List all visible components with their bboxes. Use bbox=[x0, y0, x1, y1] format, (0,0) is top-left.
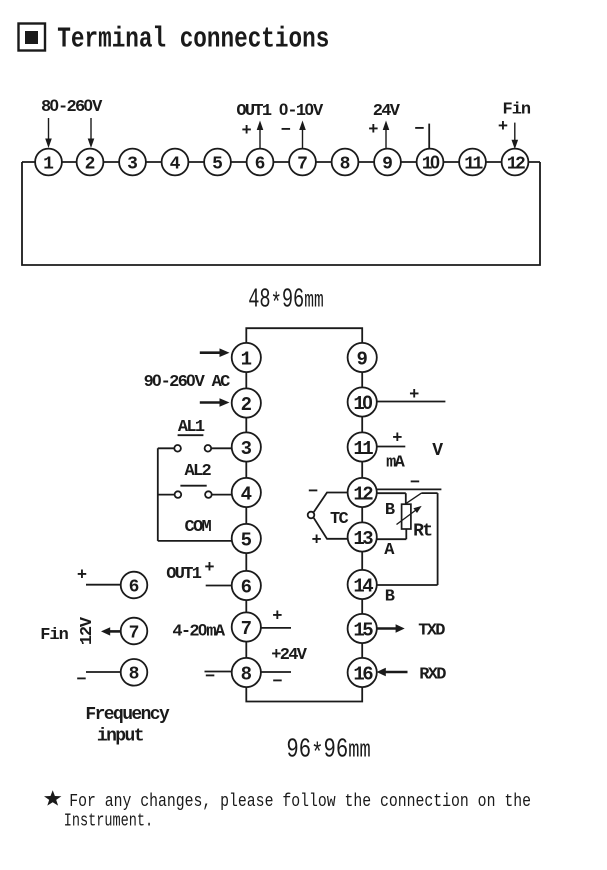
svg-text:+: + bbox=[409, 386, 419, 405]
svg-text:RXD: RXD bbox=[419, 666, 446, 685]
svg-text:16: 16 bbox=[353, 664, 373, 686]
svg-text:−: − bbox=[281, 122, 291, 141]
svg-text:14: 14 bbox=[353, 576, 373, 598]
svg-text:10: 10 bbox=[422, 152, 440, 174]
svg-text:7: 7 bbox=[129, 623, 140, 643]
svg-text:+: + bbox=[392, 430, 402, 449]
svg-text:11: 11 bbox=[353, 438, 373, 460]
svg-text:−: − bbox=[414, 121, 424, 140]
svg-text:96*96mm: 96*96mm bbox=[286, 735, 370, 770]
svg-text:5: 5 bbox=[241, 530, 252, 552]
svg-text:7: 7 bbox=[297, 154, 308, 174]
svg-text:Fin: Fin bbox=[40, 626, 68, 645]
svg-text:6: 6 bbox=[129, 577, 140, 597]
svg-text:A: A bbox=[384, 541, 395, 560]
svg-text:−: − bbox=[76, 671, 86, 690]
svg-text:80-260V: 80-260V bbox=[41, 96, 103, 117]
svg-text:+24V: +24V bbox=[271, 646, 308, 665]
svg-text:AL1: AL1 bbox=[178, 418, 205, 437]
svg-text:2: 2 bbox=[241, 394, 252, 416]
svg-text:Rt: Rt bbox=[413, 522, 432, 542]
svg-text:4: 4 bbox=[170, 154, 181, 174]
svg-text:7: 7 bbox=[241, 618, 252, 640]
svg-text:+: + bbox=[272, 608, 282, 627]
svg-text:Fin: Fin bbox=[503, 101, 531, 120]
svg-text:B: B bbox=[385, 588, 395, 607]
svg-text:+: + bbox=[498, 118, 508, 137]
svg-text:+: + bbox=[311, 532, 321, 551]
svg-text:+: + bbox=[77, 567, 87, 586]
svg-text:+: + bbox=[241, 122, 251, 141]
svg-text:Terminal connections: Terminal connections bbox=[57, 22, 329, 55]
svg-text:B: B bbox=[385, 501, 395, 520]
svg-text:3: 3 bbox=[241, 438, 252, 460]
svg-text:10: 10 bbox=[353, 393, 372, 415]
svg-text:6: 6 bbox=[255, 154, 266, 174]
svg-text:8: 8 bbox=[129, 665, 140, 685]
svg-text:AL2: AL2 bbox=[185, 462, 212, 481]
svg-text:3: 3 bbox=[127, 154, 138, 174]
svg-text:mA: mA bbox=[386, 454, 406, 473]
svg-text:2: 2 bbox=[85, 154, 96, 174]
svg-text:V: V bbox=[432, 441, 443, 461]
svg-text:6: 6 bbox=[241, 577, 252, 599]
svg-text:1: 1 bbox=[241, 349, 252, 371]
svg-text:OUT1: OUT1 bbox=[166, 565, 202, 584]
svg-text:9: 9 bbox=[382, 154, 393, 174]
svg-text:COM: COM bbox=[185, 518, 212, 537]
svg-text:TXD: TXD bbox=[418, 622, 445, 641]
svg-text:−: − bbox=[205, 668, 215, 687]
svg-text:OUT1 0-10V: OUT1 0-10V bbox=[236, 100, 324, 121]
svg-text:Instrument.: Instrument. bbox=[64, 811, 153, 832]
svg-text:12: 12 bbox=[353, 484, 373, 506]
svg-text:15: 15 bbox=[353, 620, 373, 642]
svg-text:90-260V AC: 90-260V AC bbox=[144, 371, 231, 392]
svg-text:−: − bbox=[308, 483, 318, 502]
svg-text:13: 13 bbox=[353, 528, 373, 550]
svg-text:8: 8 bbox=[340, 154, 351, 174]
svg-text:−: − bbox=[410, 474, 420, 493]
svg-text:4-20mA: 4-20mA bbox=[172, 621, 226, 642]
svg-text:TC: TC bbox=[330, 510, 349, 529]
svg-text:+: + bbox=[368, 121, 378, 140]
svg-text:24V: 24V bbox=[373, 102, 401, 121]
svg-text:11: 11 bbox=[464, 154, 483, 174]
svg-text:48*96mm: 48*96mm bbox=[248, 285, 323, 320]
svg-text:Frequency: Frequency bbox=[85, 705, 170, 725]
svg-text:1: 1 bbox=[43, 154, 54, 174]
svg-text:input: input bbox=[97, 727, 144, 747]
svg-text:8: 8 bbox=[241, 664, 252, 686]
svg-text:4: 4 bbox=[241, 484, 252, 506]
svg-text:5: 5 bbox=[212, 154, 223, 174]
svg-text:12V: 12V bbox=[78, 616, 97, 645]
svg-text:9: 9 bbox=[356, 349, 367, 371]
svg-text:12: 12 bbox=[507, 154, 525, 174]
svg-text:−: − bbox=[272, 673, 282, 692]
svg-text:+: + bbox=[204, 559, 214, 578]
